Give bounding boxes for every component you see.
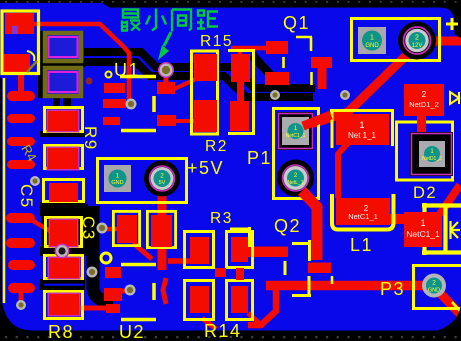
svg-text:NetC1_1: NetC1_1 — [406, 229, 440, 239]
svg-text:2: 2 — [432, 280, 436, 287]
svg-text:P3: P3 — [380, 279, 405, 299]
svg-text:Q1: Q1 — [283, 13, 310, 33]
svg-text:D2: D2 — [413, 184, 437, 202]
svg-text:R15: R15 — [200, 33, 233, 50]
svg-text:R3: R3 — [210, 210, 233, 227]
svg-text:L1: L1 — [350, 235, 373, 255]
svg-text:NetL_1: NetL_1 — [287, 180, 303, 186]
svg-text:NetD1_2: NetD1_2 — [409, 100, 439, 109]
svg-text:U1: U1 — [114, 60, 140, 80]
svg-text:R9: R9 — [81, 126, 100, 151]
svg-text:C3: C3 — [79, 216, 98, 241]
svg-text:R2: R2 — [205, 138, 228, 155]
svg-text:R8: R8 — [48, 322, 74, 341]
svg-text:GND: GND — [365, 43, 379, 49]
svg-text:GND: GND — [111, 180, 123, 186]
svg-text:R14: R14 — [204, 321, 242, 341]
svg-text:NetD1_2: NetD1_2 — [422, 156, 442, 162]
svg-text:C5: C5 — [17, 184, 36, 209]
svg-text:Q2: Q2 — [274, 216, 301, 236]
svg-text:12V: 12V — [412, 43, 423, 49]
svg-text:Net 1_1: Net 1_1 — [348, 131, 377, 140]
svg-text:U2: U2 — [119, 322, 145, 341]
svg-text:NetC1_1: NetC1_1 — [348, 212, 378, 221]
svg-text:1: 1 — [359, 120, 364, 130]
svg-text:P1: P1 — [247, 148, 272, 168]
svg-text:NetC1_1: NetC1_1 — [286, 133, 306, 139]
svg-text:5V: 5V — [159, 180, 166, 186]
svg-text:+5V: +5V — [187, 158, 224, 178]
svg-text:1: 1 — [370, 35, 374, 42]
svg-text:2: 2 — [422, 89, 427, 99]
svg-text:GND: GND — [428, 288, 440, 294]
svg-text:1: 1 — [420, 218, 425, 228]
svg-text:2: 2 — [415, 35, 419, 42]
